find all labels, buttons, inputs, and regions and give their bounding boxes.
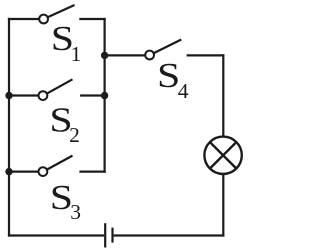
wire S4 branch right segment [187,54,225,56]
svg-text:2: 2 [69,123,80,147]
label S4 [157,56,189,103]
lamp L1 cross [210,142,236,168]
svg-text:1: 1 [71,42,82,66]
switch S2 pivot circle [39,91,48,100]
label S2 [49,101,79,147]
wire left rail [8,18,10,237]
wire top branch right segment [79,18,105,20]
wire top branch left segment [8,18,39,20]
switch S4 blade [154,40,182,54]
battery B1 short plate [111,228,113,243]
svg-text:4: 4 [178,79,189,103]
switch S1 pivot circle [39,15,48,24]
label S3 [50,178,81,224]
junction dot left rail branch3 [5,168,12,175]
switch S3 pivot circle [39,167,48,176]
wire right rail lower [222,174,224,237]
wire branch3 left segment [8,171,38,173]
junction dot right rail S4 branch [101,52,108,59]
junction dot right rail branch2 [101,92,108,99]
svg-text:S: S [157,56,180,95]
switch S4 pivot circle [145,51,154,60]
wire right rail upper [222,54,224,137]
wire branch3 right segment [79,171,105,173]
switch S2 blade [47,79,73,93]
wire bottom right segment [114,234,225,236]
svg-text:3: 3 [70,200,81,224]
battery B1 long plate [104,223,106,247]
wire bottom left segment [8,234,104,236]
wire S4 branch left segment [105,54,146,56]
label S1 [51,19,82,66]
junction dot left rail branch2 [5,92,12,99]
switch S3 blade [47,156,73,170]
wire branch2 right segment [80,94,105,96]
wire branch2 left segment [8,94,38,96]
wire parallel right rail [103,18,105,173]
lamp L1 circle [204,137,241,174]
switch S1 blade [48,5,75,17]
